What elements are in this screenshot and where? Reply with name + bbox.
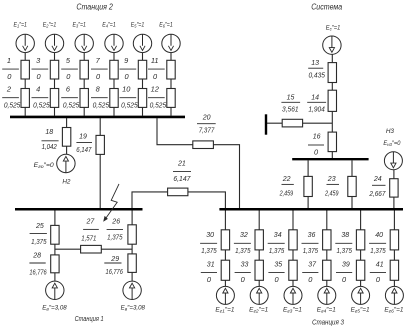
label 22/2,459: [279, 174, 294, 198]
label 32/1,375: [234, 230, 251, 255]
svg-text:Е5″=1: Е5″=1: [131, 22, 145, 29]
label 23/2,459: [324, 174, 339, 198]
generator Eв (station 1 right): [123, 281, 141, 299]
svg-text:11: 11: [151, 56, 159, 65]
svg-text:1,571: 1,571: [81, 234, 96, 243]
label 14/1,904: [307, 92, 326, 113]
svg-text:0,525: 0,525: [33, 101, 50, 110]
svg-text:Его″=0: Его″=0: [34, 162, 55, 169]
svg-text:14: 14: [311, 92, 319, 101]
label 41/0: [370, 260, 386, 285]
reactance X6: [80, 89, 88, 108]
svg-text:40: 40: [375, 230, 384, 239]
svg-text:41: 41: [376, 260, 384, 269]
reactance X15: [282, 119, 302, 127]
generator G6 (station 2): [162, 34, 180, 52]
reactance X2: [21, 89, 29, 108]
wire X6 to bus station 2: [83, 107, 85, 115]
reactance X30: [221, 230, 229, 250]
svg-text:Ег5″=1: Ег5″=1: [351, 306, 370, 313]
svg-text:33: 33: [241, 260, 250, 269]
wire X31 to G9: [224, 280, 226, 286]
label 10/0,525: [120, 85, 139, 110]
svg-text:1,375: 1,375: [201, 246, 217, 255]
svg-text:19: 19: [79, 132, 87, 141]
label Ec"=1: [326, 24, 341, 31]
label E5"=1: [131, 22, 145, 29]
wire H3 to X24: [393, 170, 395, 179]
wire line 20 from bus station 2: [157, 118, 193, 145]
label H2: [62, 178, 71, 185]
reactance X23: [348, 176, 356, 196]
reactance X28: [51, 255, 59, 273]
wire X27 link: [55, 248, 132, 250]
svg-text:Н3: Н3: [386, 128, 395, 135]
wire X15 branch: [267, 122, 332, 124]
system source: [323, 36, 341, 54]
wire G5 to X9: [142, 53, 144, 61]
generator G3 (station 2): [75, 34, 93, 52]
wire X40 to X41: [393, 250, 395, 260]
label 31/0: [201, 260, 217, 285]
wire X39 to G13: [360, 280, 362, 286]
middle bus: [292, 158, 368, 160]
svg-text:1,375: 1,375: [107, 232, 123, 241]
svg-text:0,525: 0,525: [93, 101, 110, 110]
reactance X37: [323, 260, 331, 280]
label H3: [386, 128, 395, 135]
wire X36 to X37: [326, 250, 328, 260]
wire middle bus to X23: [351, 160, 353, 176]
bus station 2: [10, 116, 185, 119]
wire bus station 3 to X38: [360, 211, 362, 230]
generator Eг5 (station 3): [352, 286, 370, 304]
label E3"=1: [72, 22, 86, 29]
label Eг1"=1: [215, 306, 234, 313]
wire X34 to X35: [292, 250, 294, 260]
svg-text:1,904: 1,904: [308, 105, 325, 114]
reactance X21: [168, 188, 188, 196]
label Eг4"=1: [317, 306, 336, 313]
svg-text:18: 18: [45, 127, 54, 136]
svg-text:Е2″=1: Е2″=1: [43, 22, 57, 29]
terminal bar: [265, 114, 267, 134]
svg-text:Ев″=3,08: Ев″=3,08: [42, 305, 67, 312]
svg-text:1,375: 1,375: [235, 246, 251, 255]
label Eг2"=1: [249, 306, 268, 313]
reactance X38: [356, 230, 364, 250]
load H2 source: [57, 154, 75, 172]
svg-text:39: 39: [342, 260, 350, 269]
svg-text:Ег3″=1: Ег3″=1: [283, 306, 302, 313]
svg-text:6,147: 6,147: [173, 174, 191, 183]
wire G1 to X1: [24, 53, 26, 61]
svg-text:26: 26: [111, 217, 121, 226]
label 40/1,375: [369, 230, 386, 255]
reactance X4: [50, 89, 58, 108]
label 34/1,375: [268, 230, 285, 255]
svg-text:Ев″=3,08: Ев″=3,08: [121, 305, 146, 312]
title label Система: [311, 3, 343, 12]
title label Станция 1: [75, 314, 104, 323]
reactance X9: [138, 60, 146, 79]
wire X16 to middle bus: [331, 152, 333, 158]
svg-text:1,042: 1,042: [42, 142, 57, 151]
wire X9 to X10: [142, 79, 144, 89]
svg-text:Ег4″=1: Ег4″=1: [317, 306, 336, 313]
wire bus station 1 to X26: [131, 211, 133, 225]
label 28/16,776: [29, 251, 47, 277]
reactance X10: [138, 89, 146, 108]
reactance X25: [51, 225, 59, 244]
label 12/0,525: [148, 85, 167, 110]
wire X30 to X31: [224, 250, 226, 260]
generator G1 (station 2): [16, 34, 34, 52]
wire bus station 3 to X40: [393, 211, 395, 230]
label 26/1,375: [107, 217, 124, 242]
svg-text:0,525: 0,525: [121, 101, 138, 110]
svg-text:4: 4: [36, 85, 40, 94]
svg-text:Станция 2: Станция 2: [76, 2, 113, 11]
reactance X8: [110, 89, 118, 108]
reactance X5: [80, 60, 88, 79]
svg-text:2,459: 2,459: [279, 189, 293, 198]
svg-text:Система: Система: [311, 3, 343, 12]
reactance X39: [356, 260, 364, 280]
reactance X34: [289, 230, 297, 250]
label 2/0,525: [2, 85, 21, 110]
svg-text:9: 9: [124, 56, 128, 65]
label Eн3"=0: [383, 140, 401, 147]
reactance X32: [255, 230, 263, 250]
label 33/0: [235, 260, 251, 285]
reactance X22: [304, 176, 312, 196]
svg-text:12: 12: [151, 85, 159, 94]
label E6"=1: [159, 22, 173, 29]
wire line 21 to bus station 3: [188, 192, 226, 208]
generator G2 (station 2): [45, 34, 63, 52]
svg-text:0,525: 0,525: [4, 101, 21, 110]
label 30/1,375: [200, 230, 217, 255]
wire X5 to X6: [83, 79, 85, 89]
svg-text:16: 16: [313, 132, 322, 141]
reactance X31: [221, 260, 229, 280]
reactance X11: [167, 60, 175, 79]
label 35/0: [268, 260, 284, 285]
title label Станция 2: [76, 2, 113, 11]
wire G4 to X7: [113, 53, 115, 61]
reactance X19: [96, 135, 104, 154]
svg-text:1,375: 1,375: [269, 246, 285, 255]
label Eг6"=1: [384, 306, 403, 313]
reactance X27: [81, 245, 102, 253]
label 19/6,147: [76, 132, 92, 154]
svg-text:1,375: 1,375: [31, 237, 47, 246]
svg-text:28: 28: [32, 251, 42, 260]
wire bus station 2 to X18: [66, 118, 68, 128]
svg-text:Е3″=1: Е3″=1: [72, 22, 86, 29]
generator G4 (station 2): [105, 34, 123, 52]
wire X22 to bus station 3: [307, 197, 309, 209]
wire X4 to bus station 2: [54, 107, 56, 115]
svg-text:6,147: 6,147: [76, 145, 92, 154]
reactance X33: [255, 260, 263, 280]
wire line 20 to bus station 3: [213, 145, 239, 208]
bus station 1: [15, 208, 143, 211]
svg-text:Ес″=1: Ес″=1: [326, 24, 341, 31]
reactance X36: [323, 230, 331, 250]
reactance X29: [128, 254, 136, 273]
generator Eг3 (station 3): [284, 286, 302, 304]
svg-text:2: 2: [6, 85, 11, 94]
wire X10 to bus station 2: [142, 107, 144, 115]
wire line 21 from bus station 1: [132, 192, 168, 208]
wire X41 to G14: [393, 280, 395, 286]
svg-text:32: 32: [240, 230, 248, 239]
generator Eг1 (station 3): [216, 286, 234, 304]
reactance X40: [390, 230, 398, 250]
svg-text:7,377: 7,377: [199, 126, 215, 135]
short-circuit fault arrow: [103, 184, 119, 222]
label E1"=1: [13, 22, 27, 29]
svg-text:38: 38: [341, 230, 350, 239]
reactance X3: [50, 60, 58, 79]
wire G3 to X5: [83, 53, 85, 61]
svg-text:0,435: 0,435: [308, 70, 325, 79]
wire X12 to bus station 2: [170, 107, 172, 115]
label 21/6,147: [173, 159, 191, 183]
label E2"=1: [43, 22, 57, 29]
svg-text:1,375: 1,375: [370, 246, 386, 255]
wire X11 to X12: [170, 79, 172, 89]
svg-text:15: 15: [287, 92, 296, 101]
svg-text:37: 37: [308, 260, 317, 269]
reactance X13: [328, 63, 336, 83]
svg-text:Н2: Н2: [62, 178, 71, 185]
generator Eг2 (station 3): [250, 286, 268, 304]
label 39/0: [336, 260, 352, 285]
reactance X24: [390, 179, 398, 197]
label 27/1,571: [81, 217, 99, 243]
wire X3 to X4: [54, 79, 56, 89]
generator Eг4 (station 3): [318, 286, 336, 304]
label 38/1,375: [335, 230, 352, 255]
svg-text:Ег2″=1: Ег2″=1: [249, 306, 268, 313]
svg-text:31: 31: [207, 260, 215, 269]
label 8/0,525: [91, 85, 110, 110]
reactance X1: [21, 60, 29, 79]
reactance X35: [289, 260, 297, 280]
reactance X26: [128, 225, 136, 244]
label 11/0: [148, 56, 165, 81]
wire X24 to bus station 3: [393, 197, 395, 208]
wire X26 to X29: [131, 244, 133, 254]
label Eв"=3,08 right: [121, 305, 146, 312]
svg-text:30: 30: [206, 230, 215, 239]
svg-text:21: 21: [177, 159, 186, 168]
svg-text:13: 13: [311, 58, 320, 67]
reactance X7: [110, 60, 118, 79]
label E4"=1: [102, 22, 116, 29]
wire G6 to X11: [170, 53, 172, 61]
label 24/2,667: [369, 174, 387, 198]
reactance X12: [167, 89, 175, 108]
svg-text:2,667: 2,667: [369, 189, 387, 198]
wire X33 to G10: [258, 280, 260, 286]
reactance X18: [62, 128, 70, 147]
label 16/0: [308, 132, 324, 157]
svg-text:0,525: 0,525: [150, 101, 167, 110]
svg-text:Е6″=1: Е6″=1: [159, 22, 173, 29]
wire bus station 3 to X34: [292, 211, 294, 230]
label 20/7,377: [197, 113, 216, 135]
label Eго"=0: [34, 162, 55, 169]
reactance X20: [193, 141, 214, 149]
svg-text:3,561: 3,561: [282, 105, 299, 114]
label Eг5"=1: [351, 306, 370, 313]
svg-text:Е4″=1: Е4″=1: [102, 22, 116, 29]
svg-text:34: 34: [274, 230, 282, 239]
svg-text:36: 36: [308, 230, 317, 239]
load H3 source: [384, 152, 402, 170]
svg-text:1,375: 1,375: [303, 246, 319, 255]
svg-text:Станция 1: Станция 1: [75, 314, 104, 323]
svg-text:25: 25: [35, 221, 45, 230]
svg-text:Е1″=1: Е1″=1: [13, 22, 27, 29]
wire bus station 2 to X19: [99, 118, 101, 135]
label 9/0: [120, 56, 137, 81]
title label Станция 3: [312, 318, 345, 327]
wire X7 to X8: [113, 79, 115, 89]
svg-text:Ег6″=1: Ег6″=1: [384, 306, 403, 313]
wire X23 to bus station 3: [351, 197, 353, 209]
reactance X41: [390, 260, 398, 280]
wire X32 to X33: [258, 250, 260, 260]
svg-text:35: 35: [274, 260, 283, 269]
svg-text:16,776: 16,776: [29, 268, 47, 277]
wire X28 to G7: [54, 273, 56, 281]
label 15/3,561: [281, 92, 300, 113]
label 1/0: [2, 56, 19, 81]
label Eг3"=1: [283, 306, 302, 313]
label 25/1,375: [30, 221, 48, 246]
wire X25 to node A: [54, 244, 56, 255]
label 18/1,042: [42, 127, 59, 151]
label 6/0,525: [61, 85, 80, 110]
svg-text:27: 27: [86, 217, 96, 226]
wire bus station 3 to X30: [224, 211, 226, 230]
label 37/0: [302, 260, 318, 285]
wire middle bus to X22: [307, 160, 309, 176]
svg-text:Ег1″=1: Ег1″=1: [215, 306, 234, 313]
label Eв"=3,08 left: [42, 305, 67, 312]
wire X35 to G11: [292, 280, 294, 286]
label 29/16,776: [104, 254, 123, 276]
bus station 3: [219, 208, 403, 211]
svg-text:29: 29: [110, 254, 119, 263]
svg-text:24: 24: [373, 174, 382, 183]
svg-text:Ен3″=0: Ен3″=0: [383, 140, 401, 147]
wire X1 to X2: [24, 79, 26, 89]
wire bus station 3 to X36: [326, 211, 328, 230]
wire G2 to X3: [54, 53, 56, 61]
wire X37 to G12: [326, 280, 328, 286]
generator G5 (station 2): [133, 34, 151, 52]
wire X38 to X39: [360, 250, 362, 260]
wire X29 to G8: [131, 272, 133, 281]
wire X19 to bus station 1: [99, 154, 101, 208]
wire X14 to X16 node: [331, 111, 333, 132]
label 36/1,375: [302, 230, 319, 255]
wire system to X13: [331, 54, 333, 62]
label 5/0: [61, 56, 78, 81]
wire X13 to X14: [331, 83, 333, 91]
svg-text:1: 1: [7, 56, 11, 65]
svg-text:0,525: 0,525: [63, 101, 80, 110]
wire X8 to bus station 2: [113, 107, 115, 115]
svg-text:20: 20: [202, 113, 212, 122]
wire bus station 1 to X25: [54, 211, 56, 226]
wire X2 to bus station 2: [24, 107, 26, 115]
svg-text:Станция 3: Станция 3: [312, 318, 345, 327]
reactance X16: [328, 132, 336, 152]
generator Eг6 (station 3): [385, 286, 403, 304]
svg-text:22: 22: [282, 174, 291, 183]
generator Eв (station 1 left): [46, 281, 64, 299]
label 13/0,435: [308, 58, 326, 79]
svg-text:16,776: 16,776: [106, 267, 124, 276]
svg-text:23: 23: [327, 174, 337, 183]
label 4/0,525: [32, 85, 51, 110]
svg-text:10: 10: [122, 85, 131, 94]
label 7/0: [91, 56, 108, 81]
wire bus station 3 to X32: [258, 211, 260, 230]
svg-text:1,375: 1,375: [337, 246, 353, 255]
wire X18 to H2: [66, 146, 68, 154]
label 3/0: [32, 56, 49, 81]
svg-text:2,459: 2,459: [324, 189, 338, 198]
reactance X14: [328, 90, 336, 111]
